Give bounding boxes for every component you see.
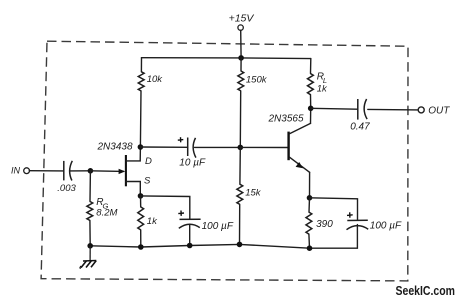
- node: top rail junction: [238, 55, 244, 61]
- wire cap to gate node: [70, 170, 91, 172]
- svg-text:2N3565: 2N3565: [268, 114, 304, 125]
- wire rail to RL: [310, 59, 312, 74]
- svg-text:1k: 1k: [317, 84, 328, 95]
- capacitor 100uF emitter bypass: [347, 212, 403, 231]
- svg-text:SeekIC.com: SeekIC.com: [396, 283, 456, 298]
- wire +15V to top rail: [240, 30, 242, 58]
- node: source: [138, 193, 144, 199]
- IN terminal: [11, 166, 30, 176]
- svg-text:8.2M: 8.2M: [96, 208, 117, 219]
- wire rail to 150k: [240, 58, 242, 71]
- node: rail 390: [307, 245, 313, 251]
- node: emitter: [307, 195, 313, 201]
- wire 15k to ground rail: [239, 204, 241, 244]
- wire 10k to drain node: [139, 91, 142, 147]
- capacitor 10uF: [178, 137, 206, 168]
- top rail wire: [142, 57, 311, 60]
- node: gate junction: [88, 168, 94, 174]
- capacitor .003: [57, 161, 76, 194]
- svg-text:OUT: OUT: [428, 106, 450, 117]
- svg-text:2N3438: 2N3438: [97, 142, 133, 153]
- svg-text:+15V: +15V: [229, 12, 255, 24]
- transistor 2N3438 JFET: [97, 142, 153, 196]
- wire divider node to 15k: [239, 147, 241, 184]
- wire 1k to ground rail: [140, 230, 142, 247]
- resistor 150k: [238, 71, 268, 91]
- svg-text:150k: 150k: [246, 75, 268, 86]
- wire 390 to ground rail: [308, 234, 311, 248]
- JFET gate arrow: [119, 169, 126, 174]
- svg-text:15k: 15k: [245, 187, 262, 198]
- capacitor 100uF source bypass: [178, 211, 234, 232]
- wire bypass cap to ground rail: [189, 224, 191, 245]
- ground symbol: [80, 246, 96, 268]
- wire rail to 10k: [140, 58, 142, 72]
- svg-text:10 µF: 10 µF: [179, 158, 206, 169]
- svg-text:IN: IN: [11, 166, 21, 176]
- resistor 10k: [138, 72, 163, 91]
- ground rail wire: [90, 244, 309, 248]
- wire source to 1k: [140, 196, 142, 207]
- svg-text:390: 390: [316, 219, 333, 230]
- wire 150k to divider node: [239, 91, 241, 147]
- node: rail bypass: [187, 243, 193, 249]
- wire emitter to output bypass cap: [310, 198, 358, 221]
- resistor 15k: [237, 184, 262, 204]
- dashed enclosure border: [41, 41, 408, 281]
- wire collector to output cap: [311, 107, 357, 110]
- resistor 390: [306, 212, 333, 234]
- wire emitter to 390: [308, 198, 311, 212]
- resistor 1k source: [138, 207, 158, 230]
- wire gate node to JFET gate: [90, 170, 123, 173]
- node: divider junction: [238, 145, 244, 151]
- svg-text:D: D: [145, 156, 152, 167]
- svg-text:100 µF: 100 µF: [202, 221, 234, 232]
- transistor 2N3565: [268, 108, 311, 198]
- +15V supply terminal: [229, 12, 255, 30]
- wire divider node to BJT base: [240, 146, 288, 148]
- OUT terminal: [418, 106, 450, 117]
- svg-text:1k: 1k: [147, 216, 158, 227]
- resistor RG 8.2M: [87, 197, 118, 220]
- node: collector: [308, 106, 314, 112]
- wire source to bypass cap: [141, 196, 190, 219]
- svg-text:.003: .003: [57, 183, 76, 194]
- svg-text:0.47: 0.47: [350, 121, 370, 132]
- svg-text:10k: 10k: [147, 74, 164, 85]
- svg-text:S: S: [144, 176, 151, 187]
- wire RL to collector node: [310, 95, 312, 109]
- wire 10uF to divider node: [195, 146, 241, 148]
- node: rail 15k: [237, 242, 243, 248]
- capacitor 0.47: [350, 99, 370, 132]
- wire gate node to RG: [89, 171, 91, 202]
- wire drain to 10uF: [140, 146, 187, 148]
- wire bypass cap to ground rail corner: [310, 225, 358, 249]
- wire output cap to OUT: [368, 108, 418, 111]
- node: rail RG: [87, 243, 93, 249]
- node: drain: [138, 144, 144, 150]
- resistor RL 1k: [308, 72, 328, 95]
- wire IN to input cap: [29, 170, 63, 172]
- svg-text:100 µF: 100 µF: [370, 221, 402, 232]
- wire RG to ground rail: [89, 220, 91, 245]
- node: rail 1k: [138, 244, 144, 250]
